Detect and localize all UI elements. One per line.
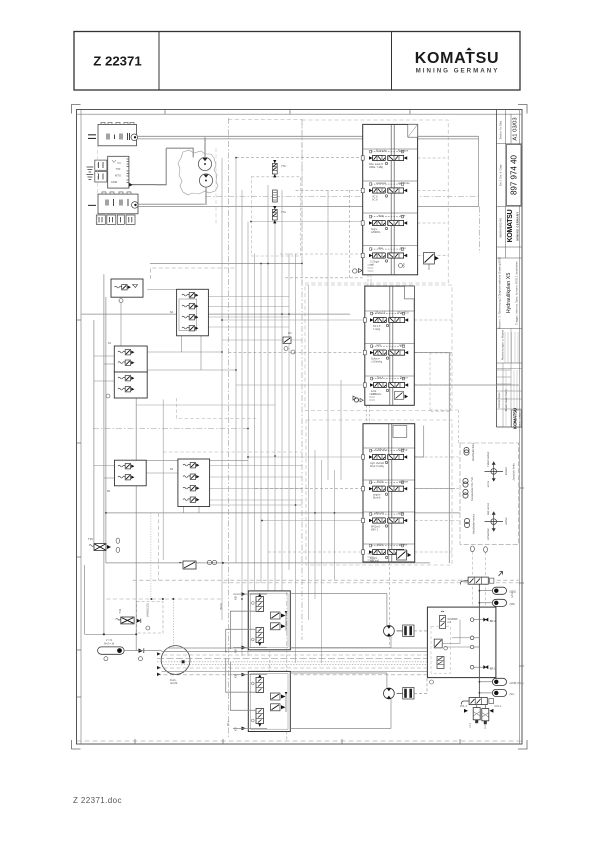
long line y513 [106, 512, 460, 514]
relief valve L2.3 [182, 315, 198, 320]
left riser dashed [158, 513, 160, 580]
svg-text:Z 22371.doc: Z 22371.doc [73, 796, 122, 805]
directional valve B2.2 [370, 343, 408, 363]
joystick cross 2 [485, 512, 504, 531]
relief valve L3.1 [118, 350, 134, 355]
title strip divider rows [497, 143, 523, 145]
left riser B [103, 274, 105, 634]
frame tick marks [519, 487, 524, 489]
svg-text:Joystick links: Joystick links [512, 463, 516, 481]
battery symbol = [88, 135, 96, 139]
corridor riser 20 dashed [349, 190, 351, 278]
long line y563 [106, 562, 430, 564]
svg-text:6lm2 7mq6g: 6lm2 7mq6g [370, 465, 384, 468]
corridor riser 13 dash-dot [301, 119, 303, 640]
K1 internal contacts [107, 133, 130, 140]
drain riser junctions [247, 456, 249, 458]
ECU block K2 [108, 156, 129, 188]
svg-text:KOMATSU: KOMATSU [507, 209, 514, 242]
svg-text:(BLD): (BLD) [219, 603, 223, 610]
accumulator ACC1 [98, 647, 125, 654]
legend circle pair 3 [464, 518, 469, 523]
accumulator A4 [492, 689, 514, 696]
svg-text:Kl.BPug: Kl.BPug [398, 448, 408, 452]
shut-off valve T15 [88, 537, 120, 553]
corridor riser 18 [334, 470, 336, 580]
svg-text:98/9AV-852-98: 98/9AV-852-98 [499, 218, 503, 238]
D2 feed lines [233, 674, 267, 676]
box link row [147, 351, 222, 353]
cartridge side arrows [464, 709, 468, 713]
svg-text:MINING GERMANY: MINING GERMANY [416, 68, 500, 75]
corridor riser 19 [340, 380, 342, 480]
pair manifold L4 [115, 460, 147, 486]
K3 internal contacts [106, 199, 128, 206]
corridor riser 11 [288, 253, 290, 570]
track valve block D2 [248, 671, 290, 731]
inner border left [80, 110, 82, 745]
B1 inlet cover plate [408, 124, 418, 137]
svg-text:RV: RV [288, 331, 292, 335]
corridor riser 16 [321, 460, 323, 663]
svg-text:weizehole: weizehole [398, 181, 410, 185]
svg-text:A/MROL: A/MROL [371, 231, 381, 234]
box label [430, 680, 434, 684]
relief valve L3.3 [118, 376, 134, 381]
B2 port stub row3 [363, 383, 366, 387]
legend circle pair 1 [464, 447, 469, 452]
pump P2 drain line [205, 187, 207, 205]
M2 brake [397, 688, 415, 700]
inner border bottom dashed [77, 740, 523, 742]
box pilot valve [440, 611, 459, 628]
pilot line T4 [280, 253, 363, 255]
twin manifold L3 upper [114, 346, 147, 372]
svg-text:(TL): (TL) [226, 721, 230, 726]
D1 counterbalance checks [271, 611, 288, 631]
bottom-left corner feed [85, 633, 137, 635]
K3 output port circle [132, 202, 139, 209]
ground symbols [87, 167, 94, 172]
lower cross line [210, 504, 302, 506]
svg-text:re/gu: re/gu [378, 214, 384, 218]
D1 port circles [251, 602, 254, 605]
block2 feed row2 [228, 352, 364, 354]
D2 counterbalance checks [271, 692, 288, 712]
dash-dot system boundary [205, 196, 478, 198]
block2 feed row3 [236, 384, 365, 386]
header divider 1 [158, 32, 160, 91]
svg-text:digu: digu [378, 246, 383, 250]
inner border right [518, 110, 520, 745]
A3 A4 stubs [479, 681, 492, 683]
B1 section dividers [363, 148, 418, 150]
svg-text:(SL): (SL) [510, 692, 515, 696]
svg-text:Dug.re: Dug.re [400, 376, 408, 380]
joystick cross 1 [485, 462, 504, 481]
box link row 2 [147, 369, 236, 371]
accumulator A3 [492, 678, 523, 685]
long feed line 2 [81, 313, 350, 315]
dashed sub-rect right of block2 [430, 353, 450, 412]
corridor riser 10 [281, 190, 283, 591]
B2 port stub row2 [363, 350, 366, 354]
fuse row below K3 [96, 215, 105, 224]
corridor riser 9 [274, 222, 276, 591]
filter cartridge 2 [482, 709, 489, 729]
D2 spool valve upper [256, 674, 264, 693]
B3 inlet cover plate [393, 426, 407, 438]
D2 right lines to motor [290, 672, 387, 674]
dashed line y599 [106, 598, 223, 600]
K2 inner marks [112, 160, 121, 163]
svg-text:durchf.: durchf. [170, 681, 178, 685]
box branch lines [474, 619, 483, 621]
svg-text:KV: KV [234, 727, 238, 731]
svg-text:Handhebel links: Handhebel links [471, 442, 475, 461]
svg-text:750: 750 [116, 167, 121, 171]
svg-text:HBKrwN: HBKrwN [374, 511, 384, 515]
svg-text:HrQg: HrQg [398, 511, 405, 515]
corridor riser 3 [235, 158, 237, 563]
left riser C [105, 297, 107, 563]
gauge port G1 [353, 269, 357, 273]
riser from valve to cartridges [476, 705, 478, 708]
svg-text:auf/zu: auf/zu [487, 480, 490, 487]
pilot line T3 [251, 221, 363, 223]
svg-text:77a: 77a [281, 210, 286, 214]
travel motor M2 [384, 688, 395, 699]
boundary riser right dash-dot [479, 207, 481, 253]
L1 drain circle [119, 299, 123, 303]
block3 feed row2 [255, 488, 363, 490]
svg-text:KB: KB [234, 649, 238, 653]
M2 brake line [414, 678, 427, 694]
svg-text:MINING GERMANY: MINING GERMANY [519, 410, 522, 427]
svg-text:w2gew: w2gew [399, 543, 407, 547]
svg-text:digre: digre [400, 246, 406, 250]
main pressure line from K1 [138, 135, 363, 137]
block2 feed row1 [222, 319, 365, 321]
shuttle valve cluster [283, 337, 291, 344]
block3 feed row3 [262, 520, 363, 522]
return line from K3 [138, 203, 205, 205]
svg-text:drehen: drehen [505, 517, 508, 525]
dashed rect around block1 [302, 120, 448, 283]
corridor riser 8 [267, 185, 269, 591]
left riser D [135, 398, 137, 649]
relief valve L3.4 [118, 387, 134, 392]
corridor riser 4 [241, 190, 243, 656]
accumulator A2 [492, 599, 514, 606]
supply valve upper [461, 577, 494, 584]
pilot valve 77a [272, 206, 277, 223]
relief valve L5.1 [183, 463, 199, 468]
K1 terminal ticks top [101, 122, 134, 124]
svg-text:angewe: angewe [399, 480, 409, 483]
travel motor M1 [384, 626, 395, 637]
main line bundle through joint [168, 647, 427, 649]
svg-text:Hydraulikplan X5: Hydraulikplan X5 [506, 273, 512, 314]
svg-text:62: 62 [170, 310, 174, 314]
B1 port stub row3 [361, 221, 364, 225]
svg-text:LP 3: LP 3 [469, 722, 472, 728]
brake control box [427, 607, 496, 678]
svg-text:Kl.BPvHLz: Kl.BPvHLz [375, 448, 388, 452]
svg-text:ru/re: ru/re [400, 214, 406, 218]
pilot valve 77b [272, 160, 277, 177]
svg-text:MINING GERMANY: MINING GERMANY [516, 212, 520, 241]
relief valve L5.2 [183, 474, 199, 479]
D1 spool valve lower [256, 628, 264, 647]
svg-text:MrQb: MrQb [377, 479, 384, 483]
rotary joint [161, 646, 190, 675]
svg-text:wostecle: wostecle [376, 181, 387, 185]
check valve CV1 [139, 649, 144, 653]
long feed line left frame [150, 263, 302, 265]
svg-text:Z 22371: Z 22371 [93, 54, 141, 69]
track valve block D1 [248, 591, 290, 650]
corner mark top-right [518, 105, 527, 114]
svg-text:BR.2: BR.2 [490, 619, 496, 623]
brake valve box L1 [111, 279, 143, 297]
svg-text:63: 63 [170, 467, 174, 471]
twin manifold L3 lower [114, 372, 147, 398]
dashed risers below D2 [286, 732, 288, 741]
D1 feed lines [233, 593, 267, 595]
svg-text:Fu/gripre: Fu/gripre [398, 149, 409, 153]
relief valve L2.4 [182, 326, 198, 331]
K2 output arrow line [130, 184, 166, 186]
drawing number box [507, 145, 522, 206]
directional valve B1.3 [369, 214, 407, 234]
filter cartridge 1 [469, 708, 480, 728]
box main riser [478, 584, 480, 697]
pilot dashed enclosure [137, 602, 163, 633]
cluster boundary dashes [98, 124, 217, 226]
svg-text:MTU: MTU [115, 174, 121, 178]
aux contact boxes left [95, 160, 107, 170]
connector block K1 [98, 125, 137, 146]
corridor cross line [222, 339, 302, 341]
engine outline [178, 150, 218, 195]
title strip bottom edge [497, 426, 523, 428]
svg-text:re6: re6 [448, 620, 452, 624]
B2 port stub row1 [363, 318, 366, 322]
gauge port G2 [354, 398, 358, 402]
left riser dotted [150, 513, 152, 599]
svg-text:7.ar2g: 7.ar2g [373, 328, 381, 331]
B1 port stub row1 [361, 156, 364, 160]
B3 port stub row4 [362, 550, 365, 554]
D1 spool valve upper [256, 593, 264, 612]
title strip left edge [496, 110, 498, 428]
legend circle pair 2 [463, 478, 468, 483]
svg-text:Tragger. internat. Spez. kons: Tragger. internat. Spez. konserv. BSD 2.… [515, 261, 519, 325]
directional valve B3.4 [369, 543, 407, 563]
svg-text:re2u: re2u [376, 343, 382, 347]
B2 drain port marks [354, 398, 358, 402]
D1 inlet arrows [242, 592, 246, 596]
header divider 2 [391, 32, 393, 91]
B1 port stub row4 [361, 253, 364, 257]
valve block B1 housing [363, 124, 418, 274]
svg-text:Bearb. Gepr. Norm.: Bearb. Gepr. Norm. [504, 388, 508, 411]
B3 port stub row2 [362, 487, 365, 491]
K1 output port circle [131, 134, 138, 141]
B1 port stub row2 [361, 188, 364, 192]
filter unit F1 [179, 560, 217, 569]
inter-block dashed risers [269, 650, 271, 672]
pilot line T5 [285, 277, 363, 279]
B1 outlet relief [399, 264, 403, 268]
svg-text:ADM: ADM [111, 180, 118, 184]
box link row 3 [147, 289, 176, 291]
corridor riser 6 [254, 254, 256, 591]
K2 right pin column [127, 159, 130, 183]
legend border [460, 443, 519, 544]
box inner dashed frame [431, 627, 451, 674]
B3 section dividers [363, 447, 415, 449]
B2 outlet relief [395, 392, 404, 400]
directional valve B1.2 [369, 181, 410, 201]
svg-text:leMBrwG: leMBrwG [371, 393, 381, 396]
svg-text:(SB): (SB) [510, 602, 515, 606]
svg-text:GL2: GL2 [484, 724, 487, 729]
box internal tie line [442, 643, 460, 645]
dash-dot cross line [93, 428, 248, 430]
relief valve L2.1 [182, 293, 198, 298]
engine drive shaft line [155, 148, 193, 185]
M1 brake [397, 625, 415, 637]
header box [74, 32, 520, 91]
B1 inner gallery lines [390, 124, 392, 274]
B1 bypass check valve [424, 253, 435, 265]
svg-text:knicken: knicken [505, 466, 508, 475]
box shuttle valve [437, 657, 444, 669]
single bar [88, 204, 96, 206]
svg-text:n-P.w: n-P.w [510, 592, 514, 598]
svg-text:Abweichungen u. Masse: Abweichungen u. Masse [501, 329, 505, 360]
dashed rect around block2 [305, 285, 452, 411]
svg-text:Ers. f. Ers. d. Gepr.: Ers. f. Ers. d. Gepr. [499, 164, 503, 186]
svg-text:schwenken: schwenken [487, 527, 490, 540]
svg-text:KOMATSU: KOMATSU [415, 50, 500, 67]
svg-text:6rQb: 6rQb [377, 543, 383, 547]
corner mark bottom-right [518, 740, 527, 749]
komatsu corner stamp dark [512, 410, 522, 427]
box check arrows BR.2 [483, 618, 486, 622]
svg-text:stiel vor/zur: stiel vor/zur [487, 503, 490, 515]
sheet outer border [77, 110, 523, 745]
supply valve lower [462, 698, 494, 705]
pilot manifold L5 [178, 459, 210, 507]
connector block K3 [98, 194, 138, 214]
svg-text:Fusspedale VR / NR: Fusspedale VR / NR [470, 477, 474, 501]
svg-text:Zeichn.-Nr. Blatt: Zeichn.-Nr. Blatt [499, 120, 503, 139]
directional valve B3.3 [369, 511, 407, 531]
pilot manifold L2 [177, 289, 209, 336]
B3 port stub row3 [362, 518, 365, 522]
breather labels [77, 649, 82, 651]
B2 inlet cover plate [405, 286, 415, 299]
D2 spool valve lower [256, 709, 264, 728]
corridor riser 15 [314, 450, 316, 599]
pilot line T2 [296, 189, 363, 191]
svg-text:Dre.li: Dre.li [377, 376, 383, 380]
legend port ovals [470, 546, 474, 552]
dashed line y580 [133, 579, 519, 581]
corridor riser 2 dash-dot [227, 118, 229, 738]
B2 section dividers [365, 310, 415, 312]
directional valve B3.1 [369, 448, 408, 468]
svg-text:Burm6: Burm6 [373, 497, 381, 500]
svg-text:77b: 77b [281, 164, 286, 168]
svg-text:l.Pub.62.6: l.Pub.62.6 [397, 311, 409, 315]
directional valve B2.1 [370, 311, 409, 331]
corridor riser 17 [327, 190, 329, 480]
corridor riser 14 [308, 285, 310, 620]
svg-text:V = N: V = N [106, 638, 113, 642]
relief valve L5.4 [183, 497, 199, 502]
inner border top [77, 113, 523, 115]
pump P2 [199, 174, 212, 187]
valve block B2 housing [365, 286, 415, 405]
box reducing valve [434, 639, 447, 650]
dashed pilot box corridor [251, 177, 300, 256]
svg-text:Fu/packe: Fu/packe [376, 149, 387, 153]
pilot line T1 [236, 157, 363, 159]
svg-text:Datum Name: Datum Name [497, 392, 501, 408]
pair box link [146, 472, 178, 474]
valve block B3 housing [363, 424, 415, 562]
accumulator A1 [492, 587, 516, 594]
relief valve L3.2 [118, 360, 134, 365]
B3 bypass check valve [397, 550, 407, 560]
box port circles [470, 618, 474, 622]
svg-text:KOMATSU: KOMATSU [513, 407, 518, 429]
svg-text:(AKB)(GLD): (AKB)(GLD) [146, 603, 150, 617]
pump P1 suction line [204, 137, 206, 157]
B2 inner gallery lines [389, 286, 391, 405]
svg-text:T11: T11 [118, 608, 122, 613]
drain stub dotted [172, 599, 174, 648]
bundle left arrowheads [157, 652, 161, 655]
dashed rect around block3 [306, 420, 452, 565]
relief valve L5.3 [183, 486, 199, 491]
pump P1 [198, 157, 211, 170]
svg-text:T15: T15 [88, 537, 93, 541]
svg-text:61: 61 [108, 341, 112, 345]
block3 feed row1 [248, 456, 363, 458]
svg-text:heben/senken: heben/senken [487, 451, 490, 467]
box check arrows BR.1 [483, 665, 486, 669]
directional valve B3.2 [369, 479, 409, 499]
corridor riser 5 [247, 222, 249, 657]
title strip inner column divider [505, 110, 507, 259]
svg-text:BR.1: BR.1 [490, 667, 496, 671]
svg-text:K6Ba. 7.aBg: K6Ba. 7.aBg [369, 166, 384, 169]
D2 inlet arrows [242, 673, 246, 677]
K3 terminal ticks top [102, 192, 131, 194]
directional valve B1.1 [369, 149, 409, 169]
left riser A [93, 320, 95, 543]
svg-text:n.G/drehg: n.G/drehg [371, 360, 383, 363]
svg-text:KOL.4: KOL.4 [495, 705, 502, 708]
svg-text:A1 03/03: A1 03/03 [513, 117, 519, 140]
block3 feed row4 [268, 551, 363, 553]
feed line to joint [124, 650, 161, 652]
